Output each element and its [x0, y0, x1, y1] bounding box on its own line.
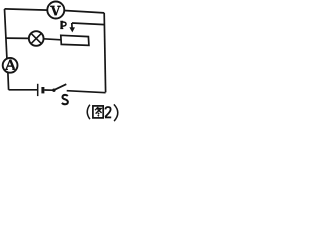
right parenthesis	[114, 104, 118, 121]
rheostat wiper arrow	[69, 23, 75, 33]
left parenthesis	[87, 105, 90, 120]
wire lamp left	[6, 37, 29, 39]
wire bottom to battery	[9, 89, 38, 91]
battery cell	[38, 84, 43, 96]
hanzi tu (drawn)	[93, 106, 103, 118]
digit 2	[105, 107, 111, 117]
wire left rail upper	[5, 9, 7, 58]
lamp L	[29, 31, 44, 46]
wire lamp to rheostat	[44, 39, 62, 40]
wire left rail lower	[7, 73, 10, 90]
ammeter A	[3, 58, 18, 73]
wire switch to bottom-right corner	[67, 91, 106, 93]
voltmeter U1 (V)	[47, 2, 64, 19]
wire right rail	[104, 13, 105, 93]
wire battery to switch	[44, 89, 52, 91]
wire from voltmeter to top-right corner	[64, 11, 104, 13]
wire wiper feed	[72, 23, 105, 25]
label S	[62, 95, 68, 104]
caption (图2)	[87, 104, 118, 121]
resistor box R (rheostat body)	[61, 35, 89, 45]
wire top-left segment	[5, 9, 48, 10]
label P	[60, 21, 66, 28]
switch S	[52, 84, 66, 92]
